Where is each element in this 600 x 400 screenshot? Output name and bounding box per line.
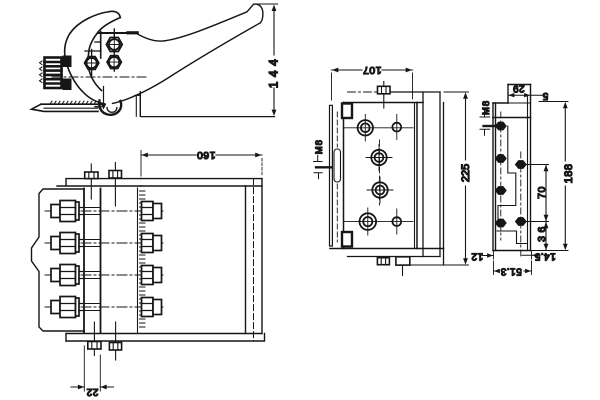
svg-text:M8: M8 [314,139,325,154]
svg-text:70: 70 [536,186,548,199]
svg-text:188: 188 [563,164,575,184]
svg-text:29: 29 [513,83,525,94]
svg-text:51.3: 51.3 [500,266,521,277]
svg-text:12: 12 [471,251,483,262]
svg-text:36: 36 [536,223,548,242]
svg-text:160: 160 [196,149,215,161]
svg-text:22: 22 [86,386,98,397]
svg-text:225: 225 [460,164,472,182]
svg-text:107: 107 [362,64,381,76]
svg-text:M8: M8 [481,100,492,115]
svg-text:144: 144 [267,55,281,89]
svg-text:5: 5 [542,90,548,101]
svg-text:14.5: 14.5 [534,251,555,262]
